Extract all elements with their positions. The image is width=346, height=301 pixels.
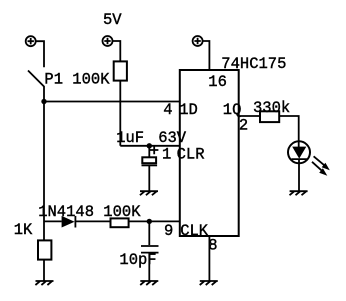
svg-text:16: 16	[208, 73, 227, 91]
terminal Vcc pin 16	[193, 36, 203, 46]
wire terminal to pin 16	[203, 41, 210, 70]
wire 330k to LED	[279, 116, 299, 141]
capacitor C1 1uF electrolytic	[142, 146, 158, 191]
wire diode to resistor 100K	[75, 220, 110, 222]
wire CLR net to pin 1	[120, 145, 180, 147]
resistor 100K (pull-up)	[114, 61, 127, 80]
terminal J1 (battery + via switch)	[26, 36, 36, 46]
LED light arrow 1	[314, 156, 325, 165]
wire pin 8 to ground	[208, 236, 210, 281]
wire pin4 net (switch to 1D input)	[44, 101, 180, 103]
wire left rail down to 1K	[43, 102, 45, 241]
resistor 100K (series)	[111, 218, 129, 227]
ground for 1K	[35, 281, 53, 285]
svg-text:CLR: CLR	[177, 146, 205, 164]
svg-text:1uF: 1uF	[116, 129, 144, 147]
svg-text:330k: 330k	[253, 99, 290, 117]
wire 5V to resistor 100K	[113, 41, 121, 61]
node junction 10pF tap	[147, 219, 152, 224]
wire J1 to switch top contact	[36, 41, 44, 67]
IC U1 74HC175 body	[180, 70, 239, 236]
svg-text:63V: 63V	[158, 129, 187, 147]
LED light arrow 2	[312, 162, 322, 171]
wire 1K to ground	[43, 260, 45, 281]
svg-text:10pF: 10pF	[119, 251, 156, 269]
wire CLK net left segment	[44, 220, 62, 222]
ground for 10pF	[140, 281, 158, 285]
node junction at switch output	[41, 99, 46, 104]
svg-text:1: 1	[162, 146, 171, 164]
svg-text:5V: 5V	[103, 11, 122, 29]
svg-text:CLK: CLK	[180, 222, 209, 240]
svg-text:74HC175: 74HC175	[221, 55, 286, 73]
polarity plus of capacitor C1	[150, 146, 158, 154]
capacitor C2 10pF	[141, 221, 159, 281]
diode D1 1N4148	[62, 216, 76, 228]
terminal 5V supply	[103, 36, 113, 46]
LED D2	[288, 141, 310, 191]
ground for pin 8	[200, 281, 218, 285]
switch P1	[28, 71, 44, 102]
wire 100K to CLR net	[119, 81, 121, 146]
svg-text:1K: 1K	[14, 221, 33, 239]
resistor 1K	[38, 240, 51, 259]
wire pin 2 to resistor 330k	[239, 115, 260, 117]
svg-text:P1 100K: P1 100K	[44, 71, 110, 89]
svg-text:2: 2	[239, 117, 248, 135]
wire 100K to pin 9	[129, 220, 180, 222]
svg-text:1D: 1D	[179, 101, 198, 119]
resistor 330k	[260, 111, 279, 122]
node junction capacitor 1uF tap	[147, 143, 152, 148]
svg-text:9: 9	[164, 222, 173, 240]
svg-text:4: 4	[163, 101, 172, 119]
ground for C1	[140, 191, 158, 195]
ground for LED	[290, 191, 308, 195]
